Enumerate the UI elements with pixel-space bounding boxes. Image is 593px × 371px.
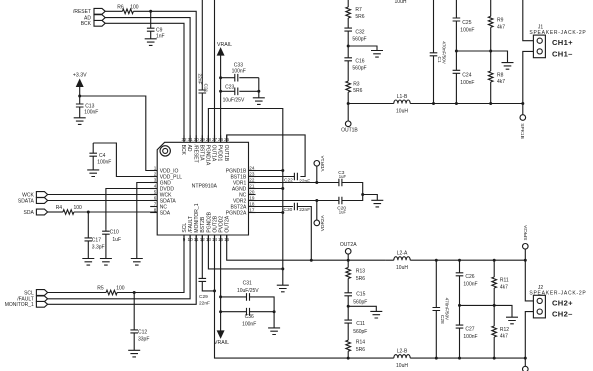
wire L2B to SPK2B corner [410, 357, 525, 359]
svg-text:10uH: 10uH [395, 0, 407, 5]
wire OUT1B pin25 to C22 [227, 135, 305, 175]
wire C4 to pin2 VDD_PLL [93, 143, 157, 177]
svg-text:MONITOR_1: MONITOR_1 [194, 203, 200, 232]
node C30 OUT2A join [310, 259, 313, 262]
svg-text:C28: C28 [439, 315, 445, 324]
IC U1 right pins 24-17 [226, 166, 256, 217]
power VRAIL bottom [214, 331, 229, 346]
capacitor C26 [456, 260, 478, 305]
resistor R3 [346, 62, 363, 103]
wire R4 to pin8 SDA [74, 211, 157, 213]
inductor L1-B [394, 94, 410, 115]
svg-text:10uH: 10uH [396, 109, 408, 115]
node PVDD1 C33 tap [219, 76, 222, 79]
svg-text:560pF: 560pF [352, 65, 366, 71]
IC U1 bottom pins 9-16 [182, 203, 231, 242]
svg-text:C30: C30 [284, 207, 293, 213]
capacitor C11 [344, 320, 367, 335]
ground C12 [128, 350, 140, 357]
svg-text:SDA: SDA [24, 210, 35, 216]
svg-text:/RESET: /RESET [73, 9, 91, 15]
wire +3.3V to pin1 VDD_IO [80, 96, 158, 171]
ground VDR1 VDR2 [371, 200, 383, 207]
wire bus to ground [282, 269, 284, 285]
svg-text:VRAIL: VRAIL [217, 42, 232, 48]
node bus bottom [281, 267, 284, 270]
resistor R12 [492, 305, 509, 358]
connector WCK [22, 192, 47, 199]
node C24 bottom [455, 102, 458, 105]
connector AD [84, 15, 105, 22]
capacitor C24 [453, 51, 475, 104]
wire CH1- down [523, 51, 534, 103]
wire L2A to SPK2A corner [410, 259, 525, 261]
svg-text:470nF/50V: 470nF/50V [442, 41, 447, 64]
svg-text:MONITOR_1: MONITOR_1 [5, 302, 34, 308]
ground zobel ch1 [371, 51, 383, 58]
node SCL C12 tap [133, 291, 136, 294]
wire CH2+ down [525, 260, 533, 301]
svg-text:BST1A: BST1A [198, 145, 204, 162]
node R6-C9 junction [149, 10, 152, 13]
svg-text:R7: R7 [355, 7, 362, 13]
wire MONITOR_1 to pin11 [48, 235, 197, 304]
svg-text:NTP8910A: NTP8910A [192, 184, 218, 190]
svg-text:3.3pF: 3.3pF [92, 245, 105, 251]
svg-text:560pF: 560pF [353, 329, 367, 335]
connector SCL [24, 290, 48, 297]
svg-text:SPK2A: SPK2A [523, 224, 529, 240]
ground C13 [74, 118, 86, 125]
wire OUT1A pin27 up [214, 0, 216, 142]
node SDA C17 tap [87, 211, 90, 214]
connector /RESET [73, 8, 105, 15]
svg-text:SPEAKER-JACK-2P: SPEAKER-JACK-2P [529, 291, 586, 297]
svg-text:SPEAKER-JACK-2P: SPEAKER-JACK-2P [529, 30, 586, 36]
svg-text:R4: R4 [56, 205, 63, 211]
capacitor C4 [89, 143, 111, 170]
node PVDD2 C31 tap [219, 295, 222, 298]
ground zobel ch2 [370, 311, 382, 318]
ground C31 C36 [268, 328, 280, 335]
svg-text:10uH: 10uH [396, 363, 408, 369]
capacitor C33 [221, 63, 259, 82]
connector J1 SPEAKER-JACK-2P [529, 24, 586, 58]
svg-text:1: 1 [154, 166, 157, 171]
svg-text:10uF/25V: 10uF/25V [237, 288, 259, 294]
wire DVDD pin4 to C10 [106, 189, 157, 230]
svg-text:1uF: 1uF [339, 174, 347, 179]
resistor R14 [346, 327, 365, 358]
node R11 R12 join [493, 304, 496, 307]
ground C4 [87, 170, 99, 177]
svg-text:100nF: 100nF [463, 281, 477, 287]
svg-text:R13: R13 [356, 269, 365, 275]
node OUT2B C29 join [213, 289, 216, 292]
svg-text:19: 19 [249, 196, 255, 201]
wire L2B row [348, 357, 394, 359]
svg-text:R11: R11 [500, 278, 509, 284]
svg-text:22nF: 22nF [199, 300, 210, 306]
svg-text:100: 100 [130, 4, 139, 10]
node C15 C11 gnd [347, 305, 350, 308]
node C31 C36 join [273, 310, 276, 313]
svg-text:R6: R6 [117, 4, 124, 10]
resistor R7 [346, 0, 365, 28]
svg-text:22nF: 22nF [299, 207, 310, 213]
wire BST2A pin18 row [249, 206, 293, 208]
svg-text:2: 2 [154, 172, 157, 177]
svg-text:4k7: 4k7 [500, 285, 508, 291]
inductor L2-A [394, 251, 410, 272]
ground C9 [145, 39, 157, 46]
connector J2 SPEAKER-JACK-2P [529, 285, 586, 318]
svg-text:CH2+: CH2+ [552, 298, 573, 307]
capacitor C12 [130, 293, 149, 351]
wire WCK to pin5 [48, 194, 158, 196]
svg-text:100nF: 100nF [97, 160, 111, 166]
svg-text:24: 24 [249, 166, 255, 171]
ground GND pin [131, 259, 143, 266]
testpoint VDR2A [314, 201, 326, 232]
svg-text:PGND2A: PGND2A [226, 210, 247, 216]
wire C33-C23 right join [258, 78, 260, 92]
svg-text:CH2–: CH2– [552, 310, 573, 319]
svg-text:4: 4 [154, 184, 157, 189]
svg-text:SCL: SCL [182, 223, 188, 233]
svg-text:C12: C12 [138, 329, 147, 335]
node OUT2A R13 tap [347, 259, 350, 262]
svg-text:10uF/25V: 10uF/25V [223, 97, 245, 103]
svg-text:SDATA: SDATA [18, 198, 35, 204]
svg-text:100nF: 100nF [242, 321, 256, 327]
wire /FAULT to pin10 [48, 235, 191, 299]
svg-text:C26: C26 [465, 274, 474, 280]
node +3.3V C13 tap [78, 95, 81, 98]
svg-text:5R6: 5R6 [356, 347, 365, 353]
svg-text:17: 17 [249, 208, 255, 213]
wire CH2- down [525, 312, 533, 359]
testpoint SPK1B [519, 104, 526, 139]
wire VDR2 pin19 row [249, 200, 317, 202]
svg-text:18: 18 [249, 202, 255, 207]
capacitor C9 [147, 11, 165, 39]
svg-text:SCL: SCL [24, 290, 34, 296]
svg-text:VRAIL: VRAIL [214, 340, 229, 346]
svg-text:C29: C29 [199, 294, 208, 300]
node C25 C24 join [455, 50, 458, 53]
wire zobel1 gnd stem [348, 46, 377, 51]
svg-text:C21: C21 [203, 84, 209, 93]
wire PVDD2 pin15 down [220, 235, 222, 331]
svg-text:21: 21 [249, 184, 255, 189]
capacitor C13 [76, 96, 98, 118]
capacitor C25 [453, 0, 475, 51]
capacitor C17 [85, 212, 105, 259]
svg-text:C32: C32 [355, 29, 364, 35]
wire mid row ch1 [456, 50, 490, 52]
connector BCK [81, 20, 105, 27]
capacitor C22 bootstrap [249, 173, 311, 185]
svg-text:R5: R5 [97, 286, 104, 292]
svg-text:L2-A: L2-A [397, 251, 408, 257]
svg-text:22nF: 22nF [299, 178, 310, 184]
svg-text:560pF: 560pF [352, 36, 366, 42]
wire L1B to SPK1B corner [410, 103, 523, 105]
svg-text:C16: C16 [355, 58, 364, 64]
node PVDD2 C36 tap [219, 310, 222, 313]
svg-text:R9: R9 [497, 17, 504, 23]
wire R6 to pin30 /RESET [133, 11, 196, 142]
connector /FAULT [17, 296, 47, 303]
svg-text:PGND1A: PGND1A [205, 145, 211, 166]
svg-text:PVDD2: PVDD2 [219, 216, 225, 233]
node PVDD1 C23 tap [219, 90, 222, 93]
svg-text:4k7: 4k7 [497, 25, 505, 31]
svg-text:22: 22 [249, 178, 255, 183]
node R14 L2B join [347, 357, 350, 360]
node R11 top [493, 259, 496, 262]
connector MONITOR_1 [5, 301, 48, 308]
svg-text:VDR2A: VDR2A [320, 214, 326, 231]
resistor R4 [56, 205, 82, 214]
svg-text:7: 7 [154, 202, 157, 207]
capacitor C32 [344, 28, 366, 58]
svg-text:3: 3 [154, 178, 157, 183]
svg-text:CH1+: CH1+ [552, 38, 573, 47]
svg-text:1uF: 1uF [112, 237, 121, 243]
testpoint VDR1A [314, 155, 326, 183]
wire /RESET to R6 [105, 10, 122, 12]
svg-text:1uF: 1uF [339, 209, 347, 214]
wire ch2 mid gnd stem [494, 305, 512, 317]
svg-text:470nF/50V: 470nF/50V [445, 298, 450, 321]
svg-text:1nF: 1nF [156, 34, 165, 40]
svg-text:C1: C1 [436, 57, 442, 63]
capacitor C20 [317, 195, 363, 215]
capacitor C3 [317, 170, 363, 194]
wire AD to pin31 [105, 18, 190, 143]
wire to gnd C33C23 [258, 91, 260, 98]
node SPK2B corner [524, 357, 527, 360]
svg-text:23: 23 [249, 172, 255, 177]
svg-text:C15: C15 [356, 291, 365, 297]
svg-text:OUT2A: OUT2A [225, 215, 231, 232]
svg-text:R14: R14 [356, 340, 365, 346]
svg-text:OUT2A: OUT2A [340, 242, 357, 248]
wire ch1 mid gnd stem [491, 51, 508, 63]
svg-text:AD: AD [186, 145, 192, 152]
wire SDA to R4 [48, 211, 63, 213]
ground C17 [82, 259, 94, 266]
wire PGND2A pin17 [249, 212, 283, 214]
node R3 L1B join [347, 102, 350, 105]
capacitor C30 bootstrap [284, 203, 312, 261]
testpoint SPK2A [523, 224, 530, 260]
capacitor C29 [199, 235, 215, 306]
svg-text:C4: C4 [99, 153, 106, 159]
svg-text:L1-B: L1-B [397, 94, 408, 100]
svg-text:R8: R8 [497, 73, 504, 79]
node C32 C16 gnd [347, 45, 350, 48]
wire GND pin3 down [137, 183, 157, 259]
wire R5 to pin9 SCL [117, 235, 184, 293]
svg-text:C25: C25 [462, 20, 471, 26]
testpoint OUT1B [341, 104, 358, 134]
node SPK2A corner [524, 259, 527, 262]
wire AGND pin21 [249, 188, 283, 190]
svg-text:OUT2B: OUT2B [212, 215, 218, 232]
wire OUT2A pin16 row [227, 235, 386, 260]
power +3.3V [73, 72, 87, 96]
svg-text:VDR1A: VDR1A [320, 155, 326, 172]
wire BCK to pin32 [105, 23, 184, 142]
node C1 bottom [432, 102, 435, 105]
resistor R13 [346, 260, 365, 293]
ground C33 C23 [253, 98, 265, 105]
svg-text:22nF: 22nF [197, 74, 203, 85]
wire C36 to gnd [273, 312, 275, 328]
capacitor C31 [221, 280, 275, 311]
svg-text:100nF: 100nF [460, 80, 474, 86]
wire L1B row left [348, 103, 394, 105]
wire PGND2B pin13 [208, 235, 282, 269]
wire zobel2 gnd stem [348, 306, 376, 311]
wire VDR1 pin22 row [249, 182, 317, 184]
wire SCL to R5 [48, 292, 107, 294]
wire mid row ch2 [460, 304, 495, 306]
svg-text:100: 100 [74, 205, 83, 211]
capacitor C28 [433, 260, 450, 358]
svg-text:/FAULT: /FAULT [188, 216, 194, 233]
svg-text:R12: R12 [500, 327, 509, 333]
inductor L1-A label fragment [395, 0, 407, 5]
ground ch1 mid [502, 63, 514, 70]
wire OUT2A to L2A [386, 259, 394, 261]
wire VDR gnd stem [363, 195, 378, 201]
node C28 top [435, 259, 438, 262]
svg-text:/RESET: /RESET [192, 145, 198, 163]
svg-text:100nF: 100nF [460, 28, 474, 34]
svg-text:4k7: 4k7 [500, 334, 508, 340]
svg-text:5R6: 5R6 [353, 88, 362, 94]
ground AGND bus [277, 285, 289, 292]
svg-text:C24: C24 [462, 72, 471, 78]
capacitor C36 [221, 308, 275, 327]
svg-text:100nF: 100nF [232, 69, 246, 75]
svg-text:5: 5 [154, 190, 157, 195]
connector SDA [24, 209, 48, 216]
svg-text:5R6: 5R6 [356, 276, 365, 282]
svg-text:BST2B: BST2B [200, 216, 206, 233]
svg-text:SDA: SDA [160, 210, 171, 216]
IC U1 top pins 32-25 [180, 135, 230, 166]
wire PGND1A pin28 to gnd bus [208, 109, 282, 269]
svg-text:BCK: BCK [180, 145, 186, 156]
wire OUT2B pin14 down [215, 235, 349, 358]
capacitor C10 [102, 229, 121, 258]
wire CH1+ up [523, 0, 534, 41]
svg-text:10uH: 10uH [396, 265, 408, 271]
wire PGND1B pin24 [249, 170, 283, 172]
capacitor C21 [197, 0, 209, 142]
inductor L2-B [394, 349, 410, 370]
svg-text:100nF: 100nF [463, 334, 477, 340]
capacitor C15 [344, 291, 367, 320]
svg-text:C23: C23 [225, 85, 234, 91]
svg-text:OUT1B: OUT1B [223, 145, 229, 162]
resistor R9 [488, 0, 505, 51]
svg-text:C11: C11 [356, 321, 365, 327]
node PGND1B bus [281, 169, 284, 172]
testpoint OUT2A [340, 242, 357, 260]
svg-text:R3: R3 [353, 81, 360, 87]
connector SDATA [18, 198, 48, 205]
node R8 bottom [489, 102, 492, 105]
svg-text:560pF: 560pF [353, 299, 367, 305]
IC U1 NTP8910A body [157, 142, 248, 235]
node VDR gnd join [361, 193, 364, 196]
node VDR1 junction [315, 181, 318, 184]
svg-text:20: 20 [249, 190, 255, 195]
capacitor C27 [456, 305, 478, 358]
svg-text:C31: C31 [243, 280, 252, 286]
ground ch2 mid [506, 317, 518, 324]
svg-text:100: 100 [116, 286, 125, 292]
svg-text:PVDD1: PVDD1 [217, 145, 223, 162]
svg-text:C10: C10 [110, 229, 119, 235]
svg-text:+3.3V: +3.3V [73, 72, 87, 78]
node R9 R8 join [489, 50, 492, 53]
capacitor C23 [221, 85, 259, 104]
svg-text:SPK1B: SPK1B [519, 123, 525, 138]
node C27 bottom [458, 357, 461, 360]
testpoint SPK2B [523, 358, 529, 371]
node C28 bottom [435, 357, 438, 360]
svg-text:33pF: 33pF [138, 336, 149, 342]
node PGND2A bus [281, 211, 284, 214]
resistor R5 [97, 286, 124, 295]
node AGND bus [281, 187, 284, 190]
svg-text:OUT1A: OUT1A [211, 145, 217, 162]
svg-text:OUT1B: OUT1B [341, 127, 358, 133]
IC U1 left pins 1-8 [150, 166, 182, 217]
node VDR2 junction [315, 199, 318, 202]
node C23 gnd join [257, 90, 260, 93]
svg-text:C27: C27 [465, 327, 474, 333]
ground C10 [100, 259, 112, 266]
wire SDATA to pin6 [48, 200, 158, 202]
capacitor C16 [344, 58, 366, 72]
node C26 C27 join [458, 304, 461, 307]
node R12 bottom [493, 357, 496, 360]
power VRAIL top [217, 42, 232, 142]
resistor R8 [488, 51, 505, 104]
svg-text:4k7: 4k7 [497, 79, 505, 85]
resistor R11 [492, 260, 509, 305]
svg-text:C17: C17 [92, 237, 101, 243]
svg-text:100nF: 100nF [84, 109, 98, 115]
resistor R6 [117, 4, 138, 13]
svg-text:C36: C36 [245, 314, 254, 320]
svg-text:L2-B: L2-B [397, 349, 408, 355]
svg-text:5R6: 5R6 [355, 14, 364, 20]
svg-text:6: 6 [154, 196, 157, 201]
svg-text:PGND2B: PGND2B [206, 211, 212, 232]
svg-text:BCK: BCK [81, 21, 92, 27]
svg-text:CH1–: CH1– [552, 49, 573, 58]
capacitor C1 [430, 0, 447, 104]
